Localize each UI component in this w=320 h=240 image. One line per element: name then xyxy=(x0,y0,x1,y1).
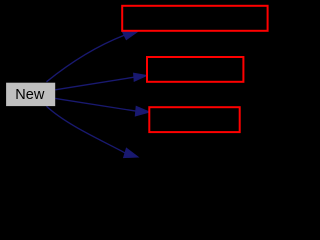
box2 (red bordered callee, middle) xyxy=(147,57,243,82)
wire: edge New to box3 (straight) xyxy=(55,98,136,111)
arrowhead into box2 xyxy=(134,73,147,81)
wire: edge New to hidden node (curved) xyxy=(47,106,126,153)
arrowhead into box3 xyxy=(135,106,149,116)
node New (current function, grey) xyxy=(6,83,55,106)
svg-text:New: New xyxy=(15,87,45,103)
box3 (red bordered callee, bottom) xyxy=(149,107,239,132)
arrowhead into box1 xyxy=(122,31,138,40)
arrowhead to hidden node xyxy=(124,148,139,157)
wire: edge New to box2 (straight) xyxy=(55,77,134,90)
box4 (hidden callee node, black on black) xyxy=(141,146,241,171)
box1 (red bordered callee, top) xyxy=(122,6,267,31)
wire: edge New to box1 (curved) xyxy=(47,35,125,82)
